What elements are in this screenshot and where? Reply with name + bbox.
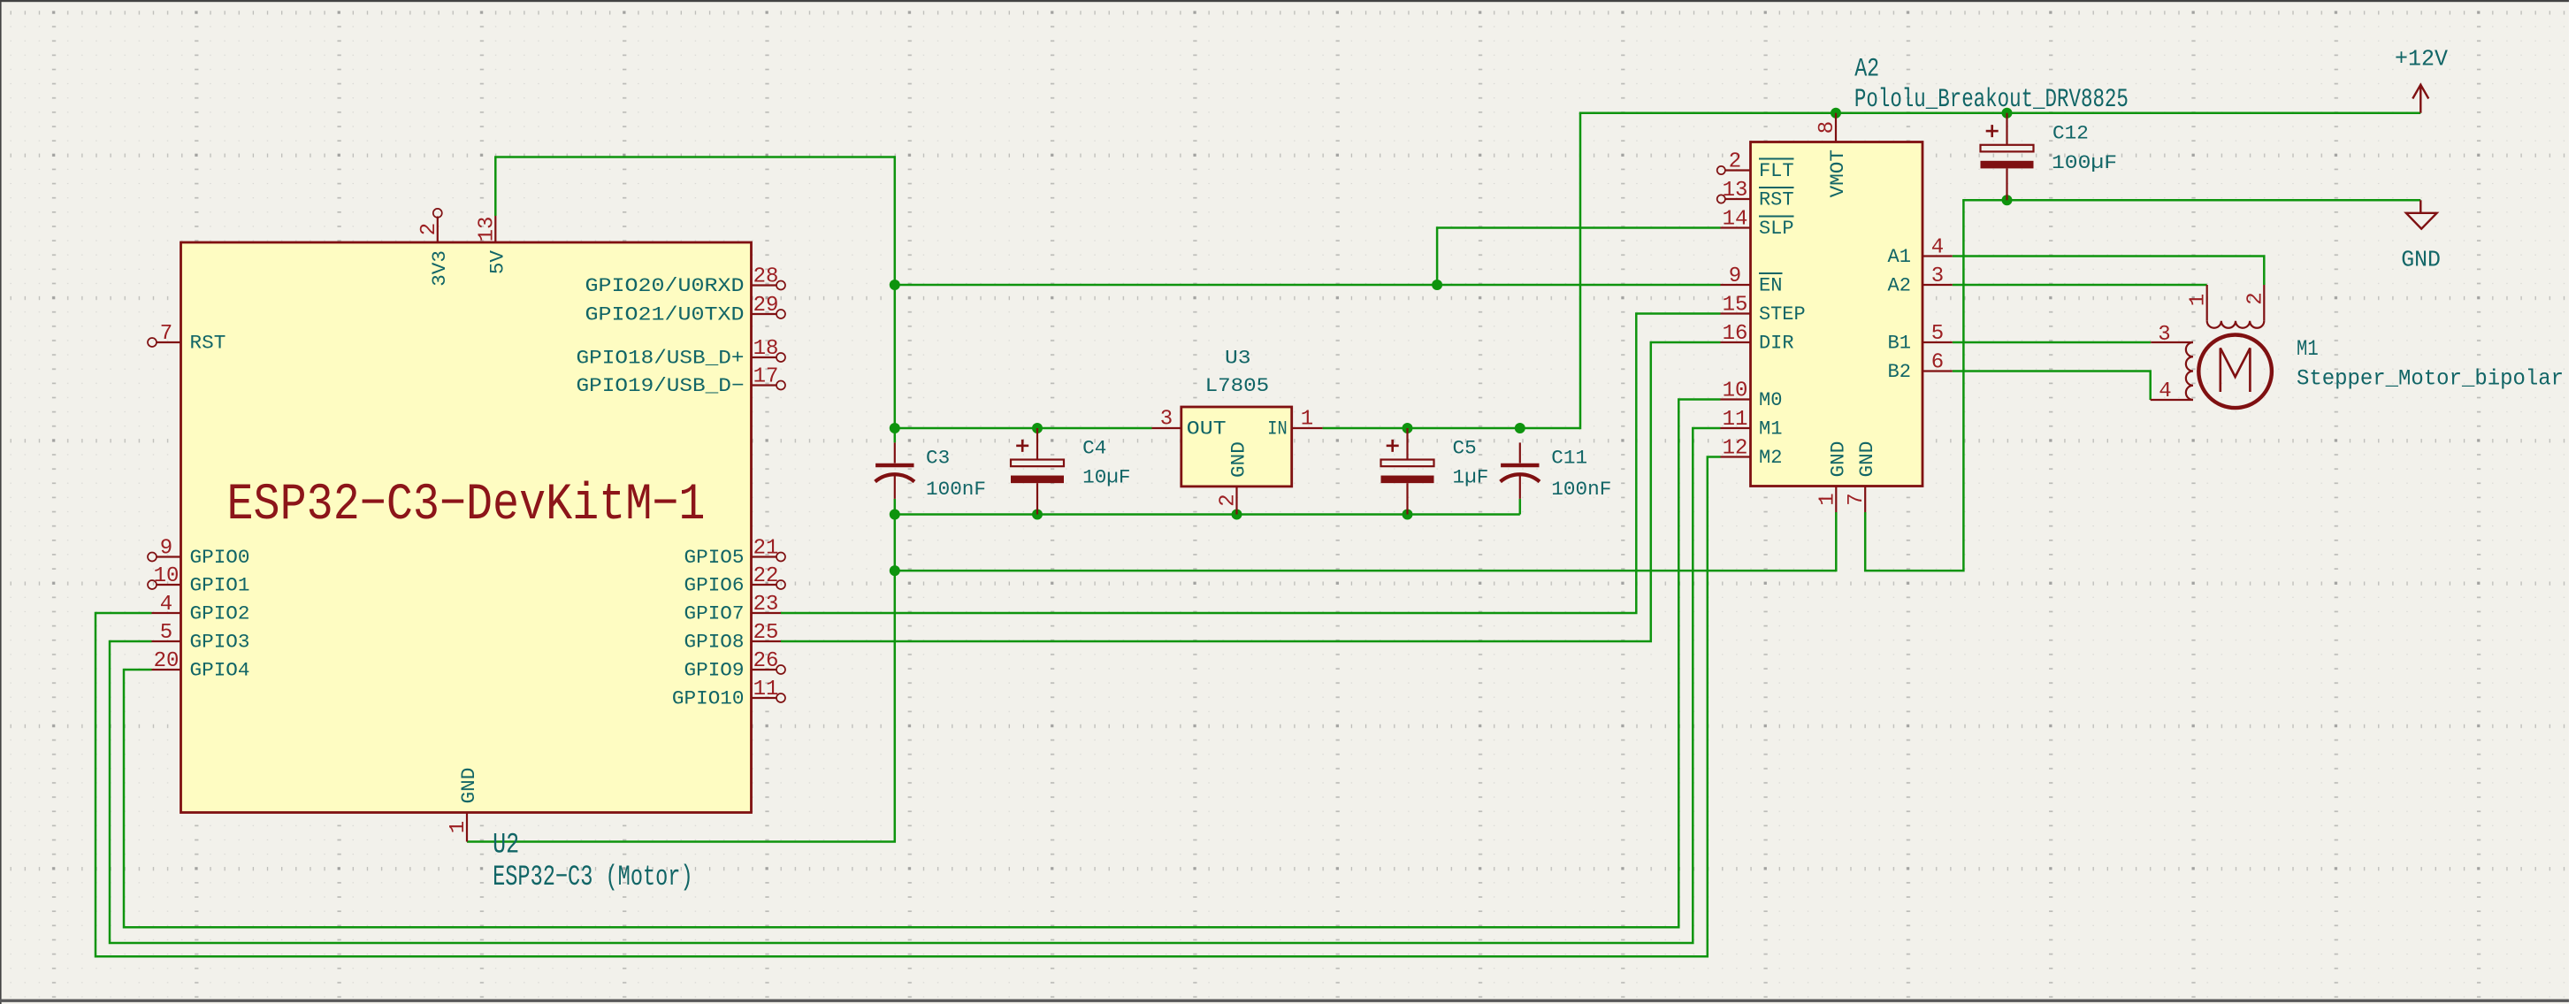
svg-text:U3: U3 xyxy=(1225,347,1251,370)
svg-text:7: 7 xyxy=(160,322,172,346)
svg-text:5: 5 xyxy=(160,621,172,645)
svg-text:3V3: 3V3 xyxy=(428,250,451,287)
capacitor C12 bottom plate xyxy=(1981,161,2034,169)
svg-text:L7805: L7805 xyxy=(1205,374,1270,397)
pin 29 GPIO21/U0TXD of U2 xyxy=(585,294,786,326)
node junction at C11 top xyxy=(1515,423,1525,433)
svg-text:17: 17 xyxy=(753,365,779,389)
svg-text:8: 8 xyxy=(1815,121,1839,134)
svg-text:FLT: FLT xyxy=(1759,159,1794,182)
svg-text:11: 11 xyxy=(753,678,779,701)
svg-text:100µF: 100µF xyxy=(2052,151,2117,174)
node junction GND bus at C5 xyxy=(1403,510,1413,520)
node junction SLP tap on EN wire xyxy=(1432,280,1442,290)
pin 12 M2 of A2 xyxy=(1721,437,1783,470)
wire DIR net: GPIO8 to DRV8825 DIR xyxy=(781,342,1721,641)
svg-text:18: 18 xyxy=(753,337,779,361)
motor M1 coil B leads xyxy=(2151,341,2193,343)
capacitor C4 top lead xyxy=(1036,428,1038,460)
svg-text:10: 10 xyxy=(154,564,180,588)
capacitor C5 top plate xyxy=(1381,460,1434,467)
wire 5V top rail to C3 column xyxy=(494,156,895,158)
node junction at C4 top xyxy=(1032,423,1043,433)
ic U2 ESP32-C3-DevKitM-1 body xyxy=(181,242,752,813)
pin 2 GND of U3 xyxy=(1217,441,1250,514)
svg-text:IN: IN xyxy=(1267,418,1287,441)
svg-text:A2: A2 xyxy=(1888,274,1912,297)
pin 13 5V of U2 xyxy=(475,216,508,274)
svg-text:2: 2 xyxy=(2243,292,2267,304)
pin 2 FLT of A2 xyxy=(1717,150,1794,183)
pin 16 DIR of A2 xyxy=(1721,322,1794,355)
svg-text:1: 1 xyxy=(1301,408,1313,432)
capacitor C5 plus sign xyxy=(1387,445,1399,448)
pin 1 IN of U3 xyxy=(1267,408,1322,441)
capacitor C11 top lead xyxy=(1519,442,1521,463)
svg-text:100nF: 100nF xyxy=(926,478,986,501)
pin 13 RST of A2 xyxy=(1717,179,1794,211)
svg-text:C3: C3 xyxy=(926,446,950,469)
svg-text:3: 3 xyxy=(2158,323,2170,347)
pin 3 OUT of U3 xyxy=(1152,408,1227,441)
svg-text:M2: M2 xyxy=(1759,446,1783,469)
svg-text:6: 6 xyxy=(1931,351,1944,375)
wire +12V riser xyxy=(1579,113,1582,430)
svg-text:GND: GND xyxy=(457,768,480,804)
svg-text:GPIO21/U0TXD: GPIO21/U0TXD xyxy=(585,303,745,326)
capacitor C12 top plate xyxy=(1981,145,2034,152)
wire B2 net to motor coil pin4 xyxy=(1953,372,2151,401)
svg-text:16: 16 xyxy=(1723,322,1748,346)
svg-text:GND: GND xyxy=(1227,441,1250,478)
bottom border line xyxy=(0,1000,2569,1002)
motor M1 body circle xyxy=(2198,335,2272,409)
svg-text:B1: B1 xyxy=(1888,332,1912,355)
wire +12V rail to power symbol xyxy=(1579,111,2421,114)
svg-text:+12V: +12V xyxy=(2395,46,2448,73)
wire GND run to DRV8825 pin1 xyxy=(895,570,1837,572)
pin 7 RST of U2 xyxy=(148,322,225,355)
svg-text:1: 1 xyxy=(2187,294,2211,306)
svg-text:21: 21 xyxy=(753,537,779,561)
svg-text:GPIO18/USB_D+: GPIO18/USB_D+ xyxy=(577,347,745,370)
pin 15 STEP of A2 xyxy=(1721,294,1806,326)
svg-text:VMOT: VMOT xyxy=(1826,149,1849,197)
svg-text:13: 13 xyxy=(1723,179,1748,203)
capacitor C12 plus sign xyxy=(1986,130,1999,133)
power symbol +12V xyxy=(2395,46,2448,113)
wire IN net U3 IN to riser xyxy=(1323,427,1580,430)
node junction GND bus at U3 pin2 xyxy=(1232,510,1242,520)
pin 28 GPIO20/U0RXD of U2 xyxy=(585,265,786,298)
node junction GND bus at C4 xyxy=(1032,510,1043,520)
capacitor C5 bottom plate xyxy=(1381,476,1434,484)
pin 1 GND of A2 xyxy=(1815,441,1849,512)
motor M1 coil A winding xyxy=(2207,321,2265,328)
svg-text:M1: M1 xyxy=(2297,336,2319,362)
motor M1 coil B winding xyxy=(2186,342,2193,400)
wire C3 bottom green segment xyxy=(894,499,897,515)
svg-text:29: 29 xyxy=(753,294,779,318)
pin 17 GPIO19/USB_D− of U2 xyxy=(577,365,786,398)
svg-text:A2: A2 xyxy=(1854,55,1879,85)
pin 4 GPIO2 of U2 xyxy=(152,593,250,625)
capacitor C12 bottom lead xyxy=(2006,168,2007,200)
capacitor C5 bottom lead xyxy=(1406,483,1408,514)
svg-text:4: 4 xyxy=(1931,236,1944,260)
svg-text:Stepper_Motor_bipolar: Stepper_Motor_bipolar xyxy=(2297,366,2564,392)
pin 20 GPIO4 of U2 xyxy=(152,649,250,682)
wire M0 net: GPIO4 to DRV8825 M0 xyxy=(124,400,1721,928)
node junction at DRV8825 VMOT xyxy=(1831,108,1841,119)
pin 5 GPIO3 of U2 xyxy=(152,621,250,654)
capacitor C11 top plate xyxy=(1501,464,1539,468)
svg-text:4: 4 xyxy=(2159,379,2171,403)
capacitor C4 plus sign xyxy=(1016,445,1028,448)
node junction EN tap xyxy=(890,280,900,290)
wire SLP net elbow to EN wire xyxy=(1437,228,1720,286)
svg-text:GPIO6: GPIO6 xyxy=(684,574,745,597)
power symbol GND xyxy=(2401,200,2441,272)
svg-text:1µF: 1µF xyxy=(1453,465,1489,488)
svg-text:3: 3 xyxy=(1160,408,1173,432)
svg-text:EN: EN xyxy=(1759,274,1783,297)
capacitor C4 bottom lead xyxy=(1036,483,1038,514)
svg-text:12: 12 xyxy=(1723,437,1748,461)
wire A2 net to motor coil pin1 xyxy=(1953,284,2207,287)
capacitor C11 bottom plate arc xyxy=(1501,474,1540,481)
node junction GND tee xyxy=(890,565,900,576)
capacitor C3 bottom lead xyxy=(894,476,896,499)
svg-text:13: 13 xyxy=(475,217,499,242)
svg-text:100nF: 100nF xyxy=(1551,478,1611,501)
wire M1 net: GPIO3 to DRV8825 M1 xyxy=(110,428,1721,943)
capacitor C11 bottom lead xyxy=(1519,476,1521,499)
node junction at C5 top xyxy=(1403,423,1413,433)
svg-text:C12: C12 xyxy=(2052,122,2089,145)
svg-text:GND: GND xyxy=(2401,247,2441,273)
svg-text:Pololu_Breakout_DRV8825: Pololu_Breakout_DRV8825 xyxy=(1854,85,2129,115)
svg-text:GPIO7: GPIO7 xyxy=(684,602,745,625)
pin 9 EN of A2 xyxy=(1721,264,1783,297)
motor M1 M glyph xyxy=(2221,349,2251,393)
pin 3 A2 of A2 xyxy=(1888,264,1953,297)
regulator U3 L7805 body xyxy=(1181,407,1292,487)
svg-text:23: 23 xyxy=(753,593,779,617)
svg-text:26: 26 xyxy=(753,649,779,673)
wire B1 net to motor coil pin3 xyxy=(1953,341,2152,344)
svg-text:9: 9 xyxy=(160,537,172,561)
wire 5V vertical down C3 column xyxy=(894,156,897,442)
svg-text:GND: GND xyxy=(1855,441,1878,478)
svg-text:GPIO20/U0RXD: GPIO20/U0RXD xyxy=(585,274,745,297)
pin 8 VMOT of A2 xyxy=(1815,113,1849,198)
wire DRV8825 pin1 GND drop xyxy=(1835,512,1838,571)
wire C11 bottom green elbow xyxy=(1519,499,1522,515)
wire A1 net to motor coil pin2 xyxy=(1953,257,2265,286)
svg-text:4: 4 xyxy=(160,593,172,617)
svg-text:15: 15 xyxy=(1723,294,1748,318)
top border line xyxy=(0,0,2569,2)
pin 6 B2 of A2 xyxy=(1888,351,1953,384)
pin 14 SLP of A2 xyxy=(1721,208,1794,241)
svg-text:C5: C5 xyxy=(1453,436,1477,459)
svg-text:5: 5 xyxy=(1931,322,1944,346)
capacitor C4 bottom plate xyxy=(1011,476,1064,484)
motor M1 coil A leads xyxy=(2206,285,2208,321)
pin 25 GPIO8 of U2 xyxy=(684,621,782,654)
svg-text:ESP32−C3−DevKitM−1: ESP32−C3−DevKitM−1 xyxy=(227,477,706,534)
svg-text:11: 11 xyxy=(1723,408,1748,432)
svg-text:10: 10 xyxy=(1723,379,1748,403)
svg-text:14: 14 xyxy=(1723,208,1748,232)
node junction GND bus at C3 xyxy=(890,510,900,520)
svg-text:GPIO2: GPIO2 xyxy=(190,602,250,625)
svg-text:2: 2 xyxy=(417,223,441,235)
capacitor C3 bottom plate arc xyxy=(875,474,914,481)
svg-text:20: 20 xyxy=(154,649,180,673)
svg-text:A1: A1 xyxy=(1888,245,1912,268)
pin 26 GPIO9 of U2 xyxy=(684,649,786,682)
wire M2 net: GPIO2 to DRV8825 M2 xyxy=(96,457,1721,957)
node junction at C12 bottom xyxy=(2002,195,2013,205)
wire GND rail C12 to GND symbol xyxy=(1962,199,2420,202)
wire GND column down to GND run xyxy=(894,515,897,571)
svg-text:GPIO10: GPIO10 xyxy=(672,687,745,710)
svg-text:28: 28 xyxy=(753,265,779,289)
left border line xyxy=(0,0,2,1004)
capacitor C12 top lead xyxy=(2006,113,2007,145)
pin 11 GPIO10 of U2 xyxy=(672,678,785,710)
svg-text:GPIO3: GPIO3 xyxy=(190,631,250,654)
svg-text:RST: RST xyxy=(190,332,226,355)
pin 21 GPIO5 of U2 xyxy=(684,537,786,570)
svg-text:2: 2 xyxy=(1217,494,1241,506)
svg-text:M1: M1 xyxy=(1759,418,1783,441)
capacitor C4 top plate xyxy=(1011,460,1064,467)
pin 2 3V3 of U2 xyxy=(417,209,451,287)
pin 9 GPIO0 of U2 xyxy=(148,537,250,570)
wire 5V: ESP32 pin13 up to top rail xyxy=(494,157,497,217)
wire OUT net C3 to U3 OUT pin xyxy=(895,427,1152,430)
wire GND from U2 pin1 up to tee xyxy=(467,570,895,842)
capacitor C3 top plate xyxy=(875,464,913,468)
capacitor C3 top lead xyxy=(894,442,896,463)
node junction at C12 top xyxy=(2002,108,2013,119)
pin 11 M1 of A2 xyxy=(1721,408,1783,441)
svg-text:GND: GND xyxy=(1826,441,1849,478)
svg-text:1: 1 xyxy=(447,821,470,833)
pin 1 GND of U2 xyxy=(447,768,480,842)
svg-text:GPIO19/USB_D−: GPIO19/USB_D− xyxy=(577,374,745,397)
svg-text:7: 7 xyxy=(1845,493,1869,505)
pin 5 B1 of A2 xyxy=(1888,322,1953,355)
svg-text:OUT: OUT xyxy=(1187,418,1227,441)
svg-text:RST: RST xyxy=(1759,188,1794,211)
pin 10 M0 of A2 xyxy=(1721,379,1783,412)
svg-text:C11: C11 xyxy=(1551,446,1587,469)
svg-text:STEP: STEP xyxy=(1759,303,1806,326)
node junction at C3 top xyxy=(890,423,900,433)
svg-text:GPIO0: GPIO0 xyxy=(190,546,250,569)
svg-text:3: 3 xyxy=(1931,264,1944,288)
capacitor C5 top lead xyxy=(1406,428,1408,460)
svg-text:M0: M0 xyxy=(1759,388,1783,411)
pin 4 A1 of A2 xyxy=(1888,236,1953,269)
wire STEP net: GPIO7 to DRV8825 STEP xyxy=(781,314,1721,614)
svg-text:1: 1 xyxy=(1815,493,1839,505)
wire DRV8825 pin7 GND loop to C12 bottom rail xyxy=(1865,200,1963,571)
pin 23 GPIO7 of U2 xyxy=(684,593,782,625)
svg-text:C4: C4 xyxy=(1082,436,1106,459)
pin 10 GPIO1 of U2 xyxy=(148,564,250,597)
svg-text:9: 9 xyxy=(1729,264,1741,288)
pin 18 GPIO18/USB_D+ of U2 xyxy=(577,337,786,370)
svg-text:GPIO4: GPIO4 xyxy=(190,659,250,682)
svg-text:B2: B2 xyxy=(1888,360,1912,383)
pin 22 GPIO6 of U2 xyxy=(684,564,786,597)
svg-text:U2: U2 xyxy=(493,828,519,861)
svg-text:GPIO1: GPIO1 xyxy=(190,574,250,597)
pin 7 GND of A2 xyxy=(1845,441,1878,512)
svg-text:GPIO9: GPIO9 xyxy=(684,659,745,682)
svg-text:10µF: 10µF xyxy=(1082,465,1130,488)
svg-text:SLP: SLP xyxy=(1759,217,1794,240)
svg-text:DIR: DIR xyxy=(1759,332,1794,355)
svg-text:22: 22 xyxy=(753,564,779,588)
ic A2 Pololu_Breakout_DRV8825 body xyxy=(1751,142,1923,487)
svg-text:GPIO5: GPIO5 xyxy=(684,546,745,569)
svg-text:GPIO8: GPIO8 xyxy=(684,631,745,654)
svg-text:ESP32−C3 (Motor): ESP32−C3 (Motor) xyxy=(493,861,693,893)
svg-text:5V: 5V xyxy=(485,250,508,275)
wire EN net from 5V column to DRV8825 EN xyxy=(895,284,1721,287)
svg-text:2: 2 xyxy=(1729,150,1741,174)
svg-text:25: 25 xyxy=(753,621,779,645)
wire GND bus under capacitors xyxy=(895,513,1520,516)
